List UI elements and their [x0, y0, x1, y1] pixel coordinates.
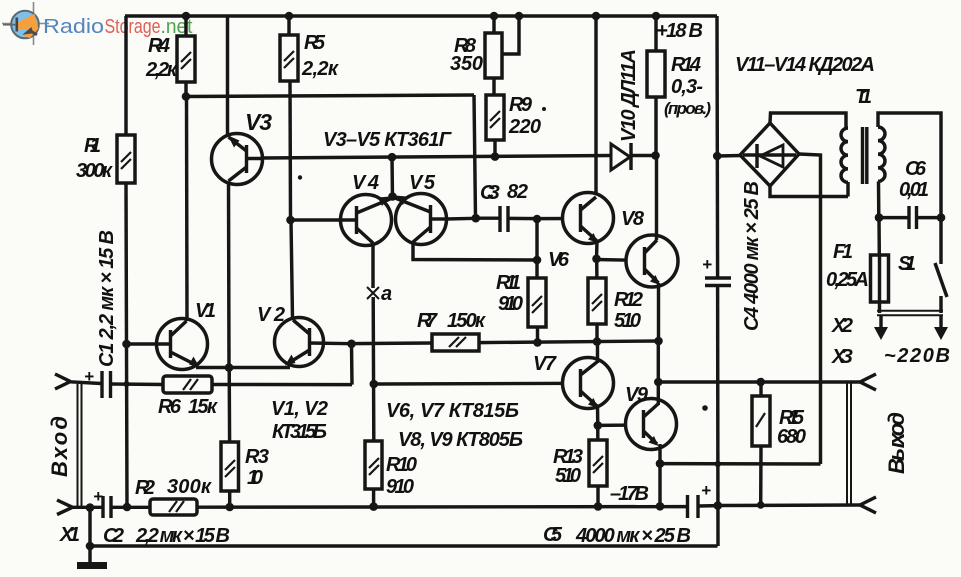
- wire input upper arrow: [55, 374, 101, 389]
- svg-text:2,2к: 2,2к: [145, 59, 178, 81]
- node R14 rail: [652, 12, 661, 21]
- wire R3 bottom lead: [228, 491, 231, 507]
- wire R12 top lead / V6 emitter drop: [595, 259, 599, 278]
- resistor R7: [417, 310, 486, 351]
- wire V7 emitter drop: [596, 406, 600, 426]
- svg-text:R2: R2: [135, 477, 155, 499]
- capacitor C5: [543, 481, 711, 547]
- output arrow lower: [860, 497, 876, 513]
- svg-text:V7: V7: [533, 353, 557, 375]
- transistor V6: [548, 193, 614, 272]
- wire V3 collector to rail: [226, 16, 229, 137]
- wire R13 bottom lead: [596, 486, 599, 507]
- svg-text:300к: 300к: [167, 476, 212, 498]
- wire feedback line y342 V2base to V8 emitter node: [352, 341, 659, 344]
- wire R5 top lead: [287, 16, 290, 35]
- resistor R1: [76, 135, 135, 183]
- resistor R4: [145, 35, 195, 82]
- mains plug arrow right: [934, 315, 948, 340]
- output arrow upper: [860, 374, 876, 390]
- node V9 emitter bridge return: [656, 459, 665, 468]
- stray dot: [298, 175, 302, 179]
- wire R8 top lead: [492, 16, 495, 33]
- wire X1 drop: [88, 508, 91, 546]
- svg-text:680: 680: [777, 426, 806, 448]
- svg-text:V10 ДЛ11А: V10 ДЛ11А: [618, 49, 640, 142]
- svg-text:15к: 15к: [188, 396, 218, 418]
- wire y96 horizontal R4-bottom to corner: [186, 95, 474, 97]
- svg-text:R9: R9: [509, 94, 533, 116]
- capacitor C4: [702, 181, 763, 331]
- node R8 top: [490, 12, 499, 21]
- node ground rail: [86, 542, 95, 551]
- transistor V4: [340, 172, 392, 246]
- wire R6 to V2 base riser: [212, 383, 352, 387]
- wire V4 base lead: [291, 218, 341, 221]
- svg-text:150к: 150к: [447, 310, 486, 332]
- label X2 X3 220V: [831, 315, 950, 368]
- resistor R13: [553, 440, 607, 487]
- wire bridge bottom link: [770, 186, 848, 197]
- transistor V7: [533, 353, 614, 409]
- wire V5 base lead: [446, 217, 476, 221]
- wire secondary bottom lead: [877, 181, 881, 218]
- svg-text:910: 910: [386, 476, 414, 498]
- wire V9 base lead: [598, 423, 644, 427]
- node R4 bottom: [182, 92, 191, 101]
- svg-text:+: +: [84, 367, 94, 386]
- wire R14 top lead: [654, 16, 657, 51]
- node R7 R11 junction: [533, 338, 542, 347]
- svg-text:V1: V1: [195, 300, 216, 322]
- svg-text:СЗ: СЗ: [480, 182, 500, 204]
- node R4 top: [182, 12, 191, 21]
- transistor V9: [625, 384, 677, 450]
- wire output shield pair: [847, 383, 851, 504]
- svg-text:R14: R14: [671, 54, 701, 76]
- svg-text:+: +: [93, 487, 103, 506]
- node V8 emitter line: [654, 337, 663, 346]
- wire bottom rail left segment: [72, 506, 102, 509]
- node R8 tap rail: [515, 12, 524, 21]
- wire ground stub: [88, 546, 91, 562]
- svg-text:Т1: Т1: [855, 86, 872, 108]
- node C4 bottom rail: [714, 501, 723, 510]
- wire bridge minus return y464: [660, 462, 821, 466]
- wire F1 bottom lead: [878, 302, 881, 313]
- node R13 bottom: [594, 502, 603, 511]
- mains plug arrow left: [874, 315, 888, 340]
- wire V9 collector riser: [657, 341, 660, 405]
- wire bottom rail mid: [197, 505, 686, 509]
- node V5 collector / R11 top: [533, 256, 542, 265]
- wire V2 collector riser: [291, 220, 293, 319]
- wire R8-R9 link: [492, 78, 495, 95]
- svg-text:S1: S1: [898, 253, 916, 275]
- svg-text:510: 510: [555, 465, 581, 487]
- wire R4 top lead: [184, 16, 187, 36]
- wire V2 base riser to R6 line: [350, 344, 354, 385]
- svg-text:350: 350: [450, 53, 483, 75]
- node R15 bottom: [757, 501, 765, 509]
- wire V8 emitter drop: [657, 283, 660, 341]
- wire R11 bottom lead: [536, 327, 539, 343]
- node C3 left: [472, 214, 481, 223]
- svg-text:КТ315Б: КТ315Б: [272, 421, 327, 443]
- transformer T1: [841, 86, 885, 184]
- svg-text:(пров.): (пров.): [664, 99, 711, 118]
- svg-text:V6, V7 КТ815Б: V6, V7 КТ815Б: [386, 400, 519, 422]
- svg-text:С6: С6: [905, 158, 927, 180]
- wire x474 drop to C3 node: [474, 95, 476, 218]
- wire V3 emitter down to emitter-line: [227, 181, 231, 368]
- capacitor C2: [93, 487, 230, 547]
- wire C1 to R6 line: [111, 382, 163, 386]
- wire R3 top lead: [227, 368, 231, 443]
- resistor R12: [588, 278, 643, 332]
- svg-text:Выход: Выход: [884, 412, 909, 474]
- wire V2 base lead: [310, 341, 352, 345]
- wire secondary top lead: [878, 113, 941, 218]
- svg-text:–17В: –17В: [610, 483, 649, 505]
- wire R13 top lead: [596, 425, 599, 440]
- svg-text:С4 4000 мк × 25 В: С4 4000 мк × 25 В: [741, 181, 763, 331]
- node V1 base: [122, 340, 131, 349]
- ground symbol: [77, 562, 107, 569]
- node output collector: [654, 378, 663, 387]
- wire V6 base lead: [537, 217, 581, 221]
- svg-text:Х2: Х2: [831, 315, 853, 337]
- resistor R14: [647, 51, 711, 118]
- node V6 collector rail: [592, 12, 601, 21]
- wire R15 leads: [759, 382, 763, 505]
- logo RadioStorage.net: [2, 2, 193, 45]
- wire V7 base line: [374, 382, 581, 386]
- transistor V2: [257, 304, 324, 367]
- wire input lower arrow: [57, 500, 73, 515]
- wire V8 collector riser: [655, 156, 658, 241]
- wire R9 bottom lead: [493, 140, 496, 157]
- svg-text:С5: С5: [543, 524, 563, 546]
- svg-text:0,25А: 0,25А: [826, 269, 869, 291]
- node bridge plus: [713, 152, 722, 161]
- switch S1: [898, 218, 947, 313]
- resistor R11: [496, 272, 546, 327]
- svg-text:~220В: ~220В: [884, 345, 950, 367]
- svg-text:С1 2,2 мк × 15 В: С1 2,2 мк × 15 В: [96, 230, 118, 367]
- wire riser to V4/V5 emitters: [390, 157, 394, 198]
- svg-text:С2: С2: [103, 525, 124, 547]
- resistor R3: [221, 442, 269, 491]
- node C6 left: [875, 213, 884, 222]
- wire ground rail y546: [90, 544, 718, 547]
- label V1 V2 type: [271, 398, 328, 443]
- node R5 top: [285, 12, 294, 21]
- wire V6 emitter lead: [595, 241, 599, 259]
- resistor R9: [486, 94, 541, 140]
- wire bridge top to primary: [770, 113, 846, 128]
- svg-text:R12: R12: [614, 289, 643, 311]
- wire R12 bottom lead: [595, 324, 598, 342]
- wire V1 collector riser: [185, 97, 189, 322]
- connector X2 double line: [877, 311, 943, 316]
- svg-text:Radio: Radio: [43, 16, 104, 38]
- node C6 right: [937, 213, 946, 222]
- node C4 minus return: [715, 461, 721, 467]
- wire R4 bottom lead: [184, 82, 187, 97]
- svg-text:a: a: [381, 283, 392, 305]
- node C1 V1 base: [124, 381, 130, 387]
- node V6 base tap: [533, 215, 542, 224]
- wire bridge plus lead: [717, 154, 741, 158]
- resistor R10: [365, 441, 417, 498]
- svg-text:82: 82: [507, 181, 528, 203]
- svg-text:V6: V6: [548, 249, 570, 271]
- wire bottom rail to output: [718, 503, 860, 507]
- wire R5 bottom to V4 base node: [288, 81, 292, 220]
- svg-text:R5: R5: [304, 32, 326, 54]
- svg-text:V8, V9 КТ805Б: V8, V9 КТ805Б: [398, 429, 523, 451]
- svg-text:10: 10: [247, 467, 263, 489]
- svg-text:R10: R10: [386, 454, 417, 476]
- resistor R6: [158, 376, 218, 418]
- resistor R8: [450, 33, 502, 78]
- svg-text:V3–V5 КТ361Г: V3–V5 КТ361Г: [323, 129, 453, 151]
- transistor V8: [626, 235, 678, 287]
- wire F1 top lead: [877, 218, 881, 255]
- node R3 bottom: [225, 503, 234, 512]
- wire V1 base lead: [127, 342, 170, 345]
- transistor V1: [157, 300, 217, 370]
- node R2 left: [123, 503, 132, 512]
- wire diode cathode to R14 node: [632, 154, 656, 157]
- wire V9 emitter drop: [658, 444, 661, 506]
- wire V1 base column x126: [126, 183, 127, 507]
- wire node a down to R10: [371, 297, 375, 441]
- transistor V5: [395, 172, 447, 245]
- wire output line y382: [658, 380, 860, 383]
- diode bridge V11-V14: [735, 54, 875, 186]
- node V7 base tap: [370, 380, 379, 389]
- node a marker: [367, 283, 392, 305]
- wire R8 side tap: [502, 16, 519, 54]
- wire primary bottom lead: [846, 182, 849, 197]
- diode V10: [611, 49, 640, 170]
- node V4 base tap: [286, 216, 295, 225]
- svg-text:4000 мк × 25 В: 4000 мк × 25 В: [575, 525, 691, 547]
- node V9 emitter bottom rail: [656, 502, 665, 511]
- node riser top: [388, 153, 397, 162]
- svg-text:0,01: 0,01: [899, 179, 929, 201]
- svg-text:R6: R6: [158, 396, 182, 418]
- node V4 V5 emitters: [388, 192, 397, 201]
- svg-text:+18 В: +18 В: [656, 20, 703, 42]
- wire R10 bottom lead: [372, 489, 375, 507]
- wire V4 collector to node a: [371, 243, 374, 288]
- svg-text:0,3-: 0,3-: [671, 76, 703, 98]
- svg-text:2,2 мк × 15 В: 2,2 мк × 15 В: [135, 525, 230, 547]
- svg-text:R11: R11: [496, 272, 521, 294]
- node R9 bottom: [491, 152, 500, 161]
- svg-text:V1, V2: V1, V2: [271, 398, 328, 420]
- capacitor C6: [879, 158, 941, 229]
- svg-text:220: 220: [508, 116, 541, 138]
- capacitor C1: [84, 230, 118, 398]
- svg-text:Х1: Х1: [59, 524, 80, 546]
- wire bridge right to minus column: [799, 154, 821, 464]
- svg-text:R3: R3: [245, 446, 269, 468]
- wire V7 collector riser: [596, 342, 599, 363]
- svg-text:510: 510: [614, 310, 641, 332]
- svg-text:V3: V3: [245, 109, 272, 135]
- capacitor C3: [476, 181, 537, 232]
- svg-text:V8: V8: [621, 208, 645, 230]
- wire V6 collector feed: [594, 16, 597, 196]
- svg-text:R7: R7: [417, 310, 438, 332]
- wire V3 base line to diode anode: [262, 156, 611, 159]
- node V7 emitter: [594, 421, 603, 430]
- svg-text:300к: 300к: [76, 160, 113, 182]
- resistor R2: [135, 476, 212, 515]
- node R15 top: [756, 378, 765, 387]
- fuse F1: [826, 241, 889, 302]
- wire C2 to R2: [111, 506, 150, 509]
- stray dot: [702, 405, 708, 411]
- wire V5 collector down and right: [413, 242, 537, 260]
- svg-text:910: 910: [498, 293, 523, 315]
- wire top +18V rail: [125, 14, 717, 17]
- node R7 R12 junction: [593, 337, 602, 346]
- stray dot: [542, 107, 546, 111]
- node R3 top: [225, 363, 234, 372]
- svg-text:F1: F1: [833, 241, 853, 263]
- node V6 emitter: [592, 254, 601, 263]
- wire emitter coupling V1 V2: [196, 366, 290, 369]
- node X1 ground tap: [86, 503, 95, 512]
- svg-text:+: +: [701, 481, 711, 500]
- wire C5 right to x718: [698, 504, 718, 508]
- svg-text:R4: R4: [148, 35, 170, 57]
- node V2 base: [347, 340, 356, 349]
- transistor V3: [212, 109, 273, 185]
- wire V8 base lead: [597, 260, 645, 261]
- node R10 bottom: [369, 502, 378, 511]
- wire main right column x718 bottom: [716, 286, 720, 547]
- svg-text:R1: R1: [84, 135, 101, 157]
- wire rail left drop to R1: [124, 16, 127, 135]
- node R14 bottom / diode cathode: [651, 151, 660, 160]
- resistor R15: [752, 396, 806, 448]
- svg-text:V11–V14 КД202А: V11–V14 КД202А: [735, 54, 875, 76]
- svg-text:ХЗ: ХЗ: [831, 346, 853, 368]
- wire R14 bottom lead: [654, 97, 657, 156]
- svg-text:V9: V9: [625, 384, 649, 406]
- wire input shield pair: [78, 384, 82, 506]
- wire main right column x718 top: [715, 16, 719, 278]
- svg-text:+: +: [702, 255, 712, 274]
- wire C3 node riser down to R11: [535, 219, 538, 278]
- resistor R5: [280, 32, 339, 81]
- svg-text:2,2к: 2,2к: [301, 58, 339, 80]
